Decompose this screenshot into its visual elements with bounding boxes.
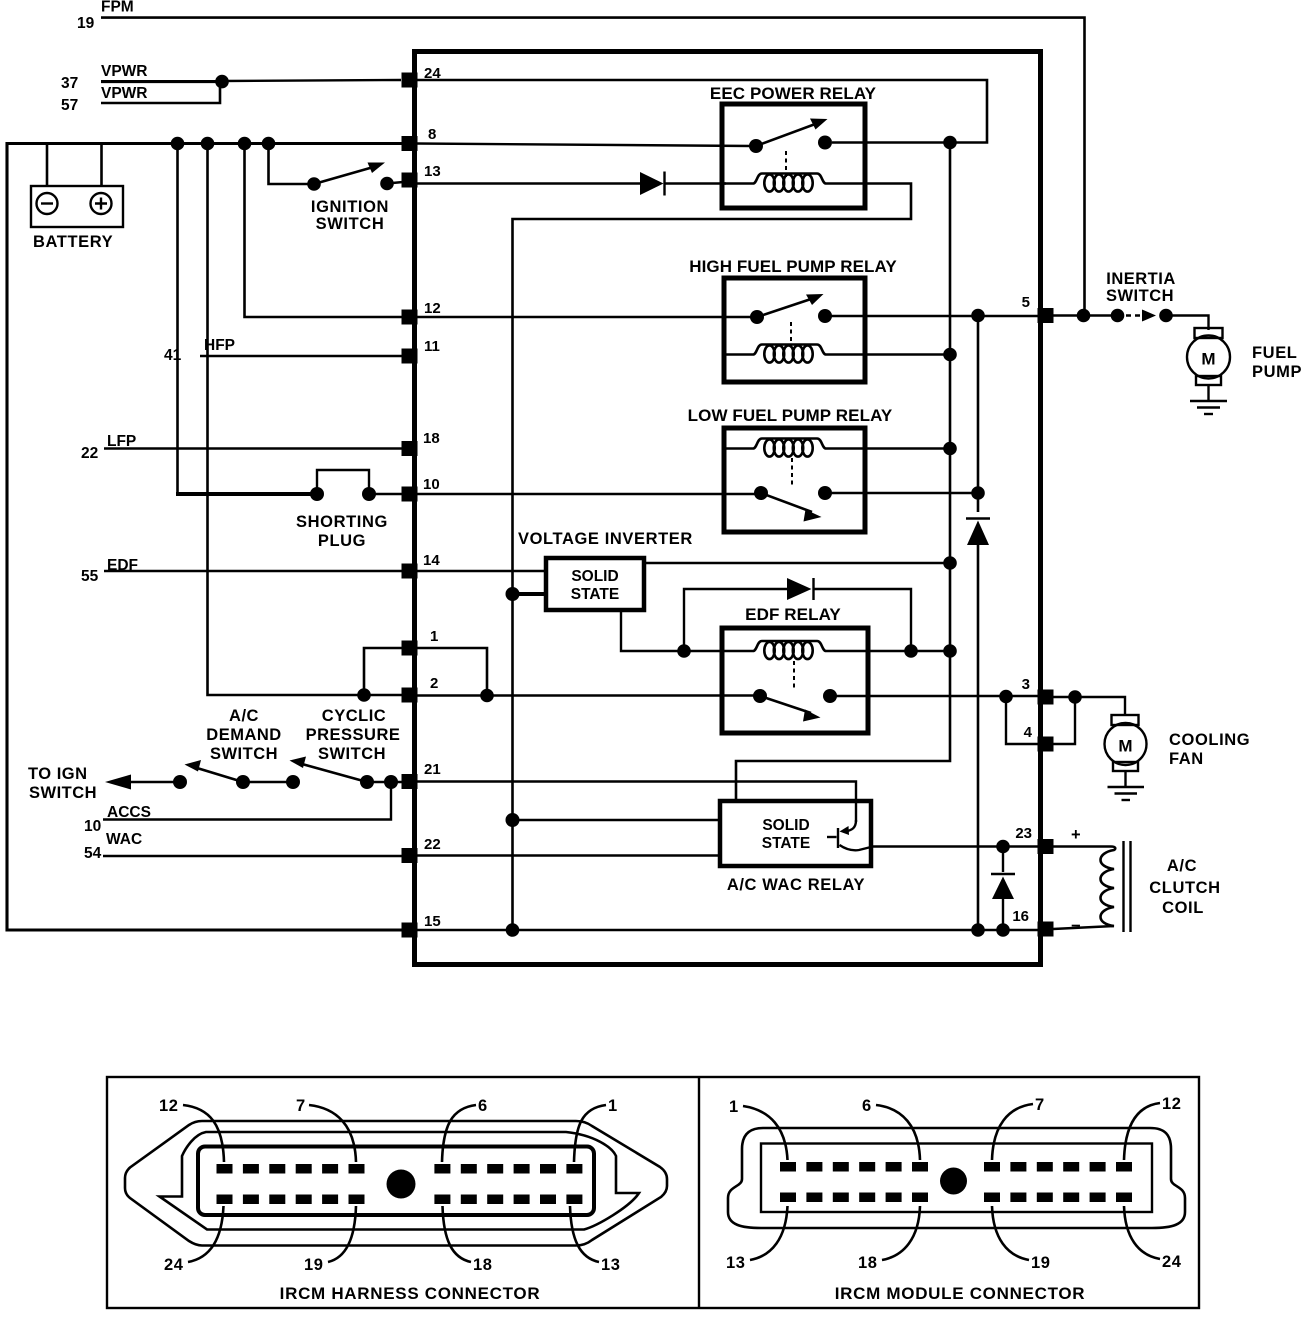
wire battery positive riser xyxy=(100,144,103,188)
connector figure outer frame xyxy=(107,1077,1199,1308)
voltage inverter U1 solid state xyxy=(518,530,693,610)
wire pin 1 interior bracket to pin 2 wire xyxy=(416,648,487,696)
junction dot clutch diode top xyxy=(996,840,1010,854)
transistor Q1 in WAC relay xyxy=(827,820,871,850)
svg-text:SOLID: SOLID xyxy=(762,817,809,834)
junction dot CR2 leg at ground row xyxy=(971,923,985,937)
svg-text:SWITCH: SWITCH xyxy=(316,215,385,233)
harness connector pin 24 callout xyxy=(164,1206,224,1274)
svg-text:PUMP: PUMP xyxy=(1252,363,1302,381)
module connector pin 19 callout xyxy=(992,1206,1051,1272)
junction dot diode return at EDF coil xyxy=(904,644,918,658)
svg-text:DEMAND: DEMAND xyxy=(206,726,281,744)
svg-text:22: 22 xyxy=(81,445,98,462)
EDF free-wheel diode CR3 loop xyxy=(684,578,911,651)
cooling fan motor M2 xyxy=(1105,715,1251,771)
svg-text:7: 7 xyxy=(1035,1096,1045,1114)
wire EDF to pin 14 xyxy=(104,570,403,572)
svg-text:12: 12 xyxy=(1162,1095,1182,1113)
wire battery negative riser xyxy=(46,144,49,188)
svg-text:IRCM HARNESS CONNECTOR: IRCM HARNESS CONNECTOR xyxy=(280,1284,541,1303)
svg-text:18: 18 xyxy=(423,430,440,447)
svg-text:SWITCH: SWITCH xyxy=(210,745,278,763)
svg-text:PRESSURE: PRESSURE xyxy=(306,726,401,744)
svg-text:LOW FUEL PUMP RELAY: LOW FUEL PUMP RELAY xyxy=(688,406,893,425)
A/C clutch coil L1 xyxy=(1101,841,1221,932)
svg-text:VOLTAGE INVERTER: VOLTAGE INVERTER xyxy=(518,530,693,548)
svg-text:WAC: WAC xyxy=(106,831,142,848)
module connector pin 12 callout xyxy=(1124,1095,1182,1160)
junction dot LFP switch at diode leg xyxy=(971,486,985,500)
svg-text:13: 13 xyxy=(601,1256,621,1274)
svg-text:FPM: FPM xyxy=(101,0,134,16)
wire from bus down to pin 2 row xyxy=(208,144,404,696)
svg-text:6: 6 xyxy=(478,1097,488,1115)
svg-text:M: M xyxy=(1201,350,1215,369)
module connector pin 1 callout xyxy=(729,1098,788,1160)
svg-text:STATE: STATE xyxy=(571,586,620,603)
wire pin 5 to inertia switch xyxy=(1053,314,1118,316)
svg-text:SOLID: SOLID xyxy=(571,568,618,585)
svg-text:SWITCH: SWITCH xyxy=(1106,287,1174,305)
module connector pin 7 callout xyxy=(992,1096,1045,1160)
wire pin 14 to voltage inverter xyxy=(416,570,548,572)
junction dot LFP coil at rail xyxy=(943,442,957,456)
svg-text:STATE: STATE xyxy=(762,835,811,852)
svg-text:37: 37 xyxy=(61,75,78,92)
ground at cooling fan xyxy=(1108,771,1145,800)
wire VPWR junction to pin 24 xyxy=(222,80,401,81)
wire pin 13 to diode xyxy=(416,182,640,184)
wire from bus down to pin 12 xyxy=(245,144,404,318)
svg-text:IRCM MODULE CONNECTOR: IRCM MODULE CONNECTOR xyxy=(835,1284,1086,1303)
IRCM module connector J2 xyxy=(728,1128,1185,1228)
junction dot inverter feed on EEC return rail xyxy=(506,587,520,601)
svg-text:CYCLIC: CYCLIC xyxy=(322,707,386,725)
wire A/C clutch coil to pin 16 xyxy=(1053,926,1114,929)
harness connector pin contacts bottom row xyxy=(217,1195,583,1205)
harness connector pin 1 callout xyxy=(574,1097,618,1162)
module connector pin contacts bottom row xyxy=(780,1193,1132,1203)
junction dots accessory switch row xyxy=(173,775,187,789)
svg-text:18: 18 xyxy=(473,1256,493,1274)
harness connector pin 6 callout xyxy=(442,1097,488,1162)
inertia switch S4 xyxy=(1106,270,1176,322)
ground at fuel pump xyxy=(1190,385,1227,414)
svg-text:CLUTCH: CLUTCH xyxy=(1149,879,1220,897)
svg-text:8: 8 xyxy=(428,126,436,143)
svg-text:COOLING: COOLING xyxy=(1169,731,1250,749)
module connector pin 6 callout xyxy=(862,1097,920,1160)
svg-text:A/C WAC RELAY: A/C WAC RELAY xyxy=(727,876,865,894)
pin 1 outside bracket to pin 2 wire xyxy=(364,648,403,695)
wire EDF coil return to B+ rail xyxy=(866,650,950,652)
TO IGN SWITCH arrow xyxy=(28,765,180,802)
wire pin 2 to EDF relay contact xyxy=(416,694,760,696)
svg-text:INERTIA: INERTIA xyxy=(1106,270,1176,288)
wire LFP switch contact to diode leg xyxy=(825,492,978,494)
svg-text:16: 16 xyxy=(1012,908,1029,925)
module connector pin 13 callout xyxy=(726,1206,788,1272)
svg-text:1: 1 xyxy=(729,1098,739,1116)
junction dot pin1 bracket on pin2 wire xyxy=(357,688,371,702)
diode CR4 across A/C clutch coil xyxy=(991,847,1015,931)
svg-text:18: 18 xyxy=(858,1254,878,1272)
wire from bus down to shorting plug xyxy=(176,144,179,495)
shorting plug xyxy=(296,470,403,550)
svg-text:VPWR: VPWR xyxy=(101,63,148,80)
wire interior bracket pin 3 to pin 4 xyxy=(1006,697,1039,745)
harness connector pin 7 callout xyxy=(296,1097,356,1162)
diode CR1 on pin 13 feed xyxy=(640,172,726,196)
junction dot pin3/pin4 interior bracket xyxy=(999,690,1013,704)
wire pin 4 outside bracket xyxy=(1053,697,1075,744)
battery BAT1 xyxy=(31,186,123,251)
junction dot clutch diode bottom xyxy=(996,923,1010,937)
svg-text:A/C: A/C xyxy=(1167,857,1197,875)
junction dot VPWR xyxy=(215,75,229,89)
A/C demand switch S2 xyxy=(185,707,282,782)
junction dot diode leg at pin 5 line xyxy=(971,309,985,323)
svg-text:6: 6 xyxy=(862,1097,872,1115)
harness connector pin 12 callout xyxy=(159,1097,224,1162)
svg-text:HFP: HFP xyxy=(204,337,235,354)
svg-text:19: 19 xyxy=(1031,1254,1051,1272)
wire ACCS from pin 10 label to switch row xyxy=(103,782,391,820)
svg-text:19: 19 xyxy=(77,15,95,32)
svg-text:10: 10 xyxy=(84,818,101,835)
svg-text:TO IGN: TO IGN xyxy=(28,765,88,783)
svg-text:24: 24 xyxy=(1162,1253,1182,1271)
junction dot EDF coil at rail xyxy=(943,644,957,658)
wire EDF relay contact to pin 3 xyxy=(830,695,1039,697)
pin number labels right column xyxy=(1012,294,1032,925)
svg-text:M: M xyxy=(1118,737,1132,756)
junction dot inverter output at rail xyxy=(943,556,957,570)
svg-text:19: 19 xyxy=(304,1256,324,1274)
IRCM harness connector J1 xyxy=(125,1121,667,1246)
svg-text:HIGH FUEL PUMP RELAY: HIGH FUEL PUMP RELAY xyxy=(689,257,897,276)
svg-text:12: 12 xyxy=(424,300,441,317)
wire HFP to pin 11 xyxy=(200,355,403,357)
wire ground row pin 15 to pin 16 xyxy=(416,929,1039,931)
wire pin 12 to HFP relay contact xyxy=(416,316,760,318)
svg-text:−: − xyxy=(1071,917,1081,935)
svg-text:55: 55 xyxy=(81,568,99,585)
wire voltage inverter output to B+ rail xyxy=(642,562,950,564)
wire pin 23 to A/C clutch coil xyxy=(1053,845,1111,847)
fuel pump motor M1 xyxy=(1187,328,1302,385)
svg-text:COIL: COIL xyxy=(1162,899,1204,917)
module connector pin 18 callout xyxy=(858,1206,920,1272)
wire WAC to pin 22 xyxy=(103,855,403,857)
harness connector pin 18 callout xyxy=(443,1206,493,1274)
wire B+ distribution rail down to A/C WAC relay xyxy=(736,143,950,800)
junction dot WAC control feed xyxy=(506,813,520,827)
wire VPWR 37 to junction xyxy=(101,80,222,83)
svg-text:14: 14 xyxy=(423,552,440,569)
harness connector pin contacts top row xyxy=(217,1164,583,1174)
diode leg from pin5 line down to ground row xyxy=(977,316,980,513)
harness connector pin 13 callout xyxy=(570,1206,621,1274)
EEC power relay K1 xyxy=(710,84,877,208)
svg-text:BATTERY: BATTERY xyxy=(33,233,113,251)
svg-text:2: 2 xyxy=(430,675,438,692)
svg-text:SWITCH: SWITCH xyxy=(29,784,97,802)
A/C WAC relay U2 solid state xyxy=(720,801,871,894)
svg-text:23: 23 xyxy=(1015,825,1032,842)
wire left ground return from bus to pin 15 row xyxy=(7,142,403,930)
pin number labels left column xyxy=(423,65,441,930)
pin squares right column xyxy=(1038,308,1054,937)
harness connector pin 19 callout xyxy=(304,1206,356,1274)
high fuel pump relay K2 xyxy=(689,257,897,382)
svg-text:24: 24 xyxy=(424,65,441,82)
svg-text:10: 10 xyxy=(423,476,440,493)
svg-text:1: 1 xyxy=(608,1097,618,1115)
wire WAC relay output to pin 23 xyxy=(869,845,1039,847)
wire EEC coil return to voltage inverter rail xyxy=(513,184,912,931)
svg-text:SWITCH: SWITCH xyxy=(318,745,386,763)
svg-text:54: 54 xyxy=(84,845,102,862)
wire cyclic switch to pin 21 xyxy=(367,781,403,783)
wire pin 8 to EEC relay contact xyxy=(416,144,752,147)
wire pin 22 to WAC relay xyxy=(416,854,722,856)
wire stub into voltage inverter xyxy=(513,592,549,596)
svg-text:SHORTING: SHORTING xyxy=(296,513,388,531)
junction dot EDF coil left xyxy=(677,644,691,658)
junction dot HFP coil at rail xyxy=(943,348,957,362)
svg-text:21: 21 xyxy=(424,761,441,778)
svg-text:ACCS: ACCS xyxy=(107,804,151,821)
wire demand switch to cyclic switch xyxy=(243,781,293,783)
junction dot pin4 bracket outside xyxy=(1068,690,1082,704)
wire VPWR 57 up to junction xyxy=(101,82,220,103)
wire pin 10 to LFP switch contact xyxy=(416,493,761,495)
wire LFP to pin 18 xyxy=(104,447,403,449)
svg-text:11: 11 xyxy=(424,338,440,355)
junction dot EEC feed xyxy=(943,136,957,150)
svg-text:PLUG: PLUG xyxy=(318,532,366,550)
svg-text:3: 3 xyxy=(1022,676,1030,693)
module connector pin contacts top row xyxy=(780,1162,1132,1172)
svg-text:13: 13 xyxy=(726,1254,746,1272)
IRCM module outline xyxy=(415,52,1041,965)
svg-text:57: 57 xyxy=(61,97,78,114)
svg-text:24: 24 xyxy=(164,1256,184,1274)
cyclic pressure switch S3 xyxy=(290,707,401,782)
svg-text:4: 4 xyxy=(1024,724,1033,741)
wire HFP relay contact to pin 5 xyxy=(825,315,1039,317)
svg-text:41: 41 xyxy=(164,347,182,364)
diode CR2 vertical xyxy=(966,519,990,931)
svg-text:VPWR: VPWR xyxy=(101,85,148,102)
ignition switch S1 xyxy=(307,163,403,234)
wire thick feed into shorting plug xyxy=(176,492,317,496)
wire control feed into WAC relay xyxy=(513,819,723,821)
svg-text:EDF RELAY: EDF RELAY xyxy=(745,605,841,624)
module connector pin 24 callout xyxy=(1124,1206,1182,1271)
svg-text:IGNITION: IGNITION xyxy=(311,198,389,216)
wire battery bus xyxy=(7,142,403,145)
low fuel pump relay K3 xyxy=(688,406,893,532)
connector figure divider xyxy=(698,1077,700,1308)
svg-text:FAN: FAN xyxy=(1169,750,1204,768)
svg-text:22: 22 xyxy=(424,836,441,853)
svg-text:12: 12 xyxy=(159,1097,179,1115)
junction dots on battery bus xyxy=(171,137,185,151)
svg-text:15: 15 xyxy=(424,913,441,930)
wire inertia switch to fuel pump xyxy=(1166,316,1209,331)
wire FPM net from pin 19 label to inertia-switch line xyxy=(101,18,1085,315)
wire LFP coil return to B+ rail xyxy=(863,447,950,449)
svg-text:FUEL: FUEL xyxy=(1252,344,1297,362)
junction dot ground rail left xyxy=(506,923,520,937)
wire voltage inverter bottom to EDF coil xyxy=(621,608,684,651)
svg-text:13: 13 xyxy=(424,163,441,180)
wire pin 21 to WAC transistor collector xyxy=(416,782,856,823)
svg-text:+: + xyxy=(1071,826,1081,844)
svg-text:EEC POWER RELAY: EEC POWER RELAY xyxy=(710,84,877,103)
svg-text:5: 5 xyxy=(1022,294,1030,311)
svg-text:7: 7 xyxy=(296,1097,306,1115)
svg-text:1: 1 xyxy=(430,628,438,645)
svg-text:A/C: A/C xyxy=(229,707,259,725)
pin 24 interior wire to EEC relay contact xyxy=(416,80,987,143)
wire HFP coil return to B+ rail xyxy=(863,353,950,355)
wire pin 3 to cooling fan xyxy=(1053,697,1125,716)
wire feed to ignition switch xyxy=(269,144,315,185)
junction dot pin1 bracket interior xyxy=(480,689,494,703)
EDF relay K4 xyxy=(684,605,868,733)
pin squares left column xyxy=(402,73,418,938)
junction dot FPM tap xyxy=(1077,309,1091,323)
